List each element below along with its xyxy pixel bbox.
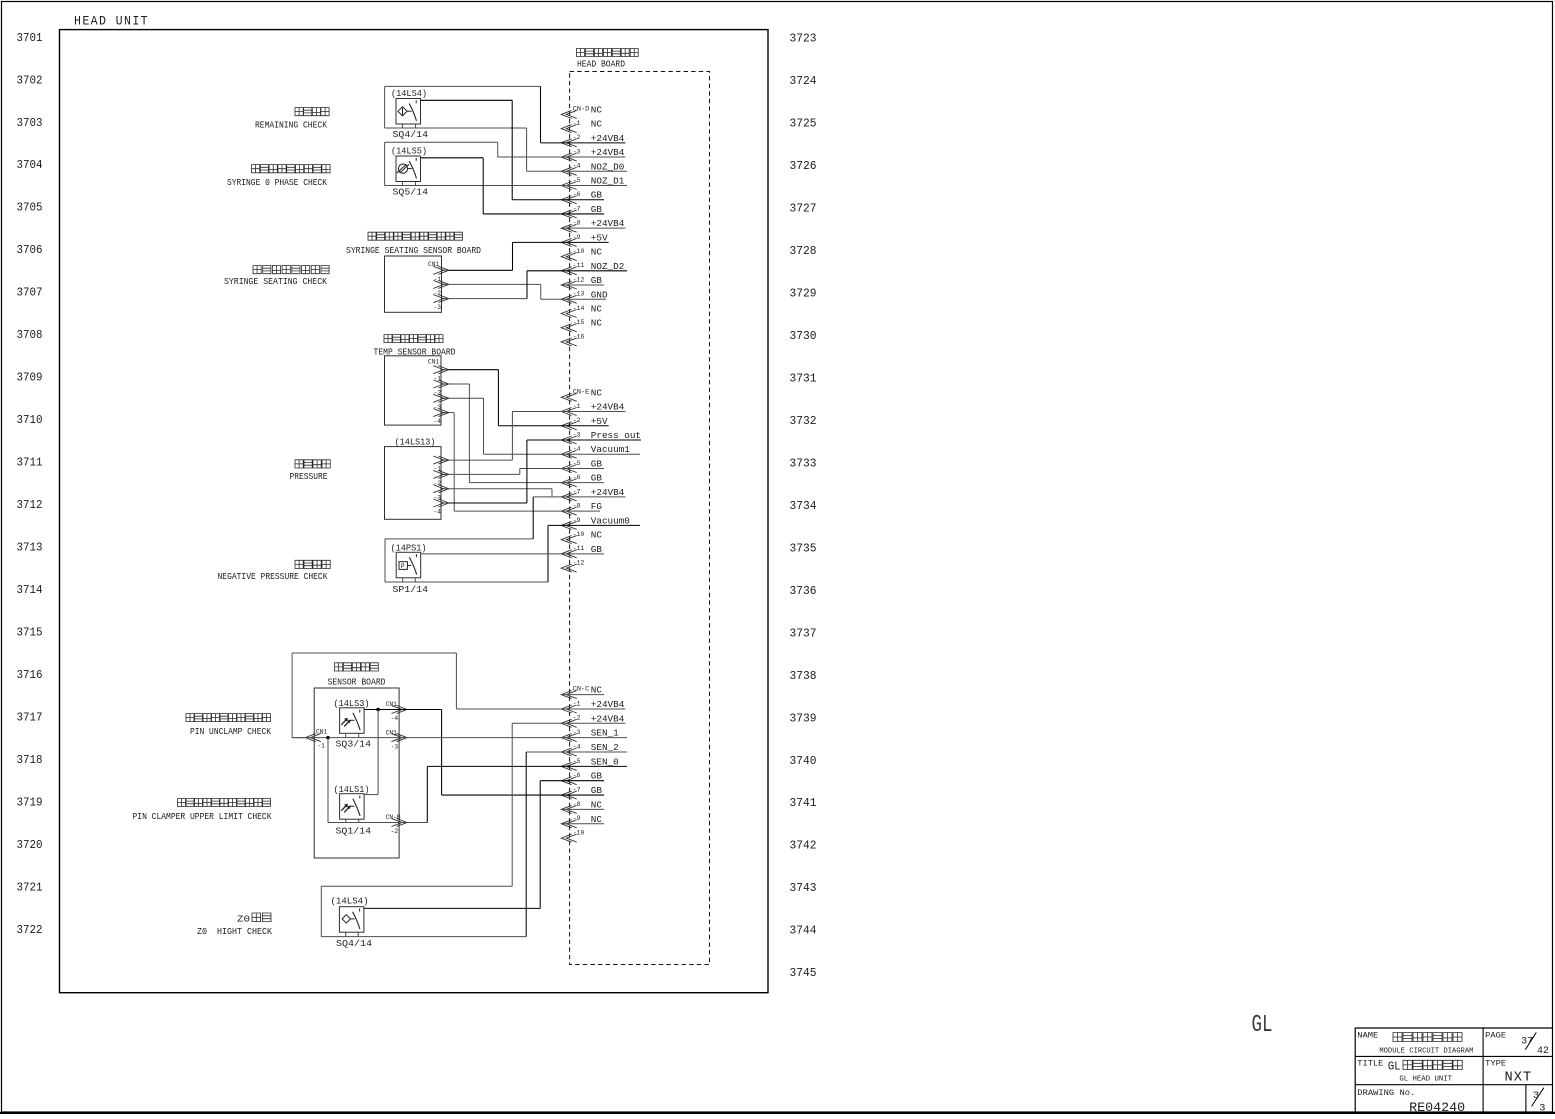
sensor box 14LS3	[340, 708, 365, 734]
14LS3 left stub	[345, 733, 347, 737]
svg-text:-14: -14	[573, 305, 585, 312]
svg-text:Press out: Press out	[591, 430, 641, 441]
Z0 right stub	[357, 932, 359, 936]
head board outline (dashed)	[570, 72, 710, 965]
svg-text:P: P	[401, 563, 405, 570]
svg-text:3726: 3726	[790, 159, 817, 173]
CN-C pin 4 socket symbol	[561, 748, 577, 756]
svg-text:Vacuum0: Vacuum0	[591, 515, 630, 526]
temp board CN1 pin 3	[433, 394, 449, 402]
CN-D-8 +24VB4 underline	[561, 227, 625, 229]
svg-text:Z0 HIGHT CHECK: Z0 HIGHT CHECK	[197, 927, 273, 937]
wire 14LS13-2 to CN-E-5 GB	[449, 473, 520, 475]
CN-D pin 14 socket symbol	[561, 310, 577, 318]
label: TEMP SENSOR BOARD (JP+EN)	[384, 335, 443, 343]
wire CN-C-2 +24VB4 down to Z0 bottom	[512, 722, 625, 724]
14LS1 left stub	[345, 819, 347, 822]
14LS1 right stub	[358, 819, 360, 822]
svg-text:3725: 3725	[790, 117, 817, 131]
wire CN-B-2 to CN-C-5 SEN_0	[426, 766, 428, 822]
14LS13 pin 4	[433, 499, 449, 507]
svg-text:3716: 3716	[17, 668, 43, 682]
svg-text:CN-B: CN-B	[386, 814, 401, 821]
svg-text:-2: -2	[391, 828, 399, 835]
svg-text:-1: -1	[317, 743, 325, 750]
svg-text:PIN CLAMPER UPPER LIMIT CHECK: PIN CLAMPER UPPER LIMIT CHECK	[133, 812, 273, 822]
svg-text:3731: 3731	[790, 371, 817, 385]
CN-E pin 9 socket symbol	[561, 521, 577, 529]
svg-text:+5V: +5V	[591, 416, 608, 427]
svg-text:3738: 3738	[790, 669, 817, 683]
svg-text:3723: 3723	[790, 32, 817, 46]
svg-text:-3: -3	[434, 304, 442, 311]
svg-text:GL: GL	[1388, 1060, 1401, 1074]
svg-text:GB: GB	[591, 544, 603, 555]
svg-text:CN1: CN1	[316, 728, 327, 735]
CN-D pin 4 socket symbol	[561, 167, 577, 175]
svg-text:3713: 3713	[17, 541, 43, 555]
wire CN-C-6 GB to Z0 contact	[540, 780, 604, 782]
svg-text:MODULE CIRCUIT DIAGRAM: MODULE CIRCUIT DIAGRAM	[1379, 1047, 1473, 1055]
svg-text:-10: -10	[573, 830, 585, 837]
svg-text:GL: GL	[1252, 1012, 1273, 1039]
wire 14LS13-3 to CN-E-7 +24VB4	[449, 488, 552, 490]
svg-text:42: 42	[1537, 1045, 1549, 1057]
svg-text:3730: 3730	[790, 329, 817, 343]
svg-text:3740: 3740	[790, 754, 817, 768]
CN-D pin 6 socket symbol	[561, 196, 577, 204]
svg-text:3702: 3702	[17, 73, 43, 87]
svg-text:RE04240: RE04240	[1409, 1101, 1465, 1114]
svg-text:REMAINING CHECK: REMAINING CHECK	[255, 120, 328, 130]
svg-text:NC: NC	[591, 119, 603, 130]
CN-E pin 4 socket symbol	[561, 450, 577, 458]
svg-text:3741: 3741	[790, 796, 817, 810]
svg-text:DRAWING No.: DRAWING No.	[1357, 1088, 1415, 1098]
junction 14LS3/14LS1	[376, 708, 380, 712]
svg-text:GB: GB	[591, 204, 603, 215]
sheet slash	[1532, 1088, 1544, 1107]
svg-text:HEAD BOARD: HEAD BOARD	[577, 60, 625, 70]
sensor box 14PS1	[396, 552, 421, 578]
CN-C pin 7 socket symbol	[561, 791, 577, 799]
svg-text:3734: 3734	[790, 499, 817, 513]
CN-C pin 10 socket symbol	[561, 834, 577, 842]
CN-C pin 3 socket symbol	[561, 734, 577, 742]
svg-text:3715: 3715	[17, 626, 43, 640]
svg-text:NC: NC	[591, 303, 603, 314]
svg-text:-11: -11	[573, 545, 585, 552]
svg-text:SQ5/14: SQ5/14	[393, 188, 429, 198]
CN-E pin 11 socket symbol	[561, 550, 577, 558]
wire seating-2 to CN-D-13 GND	[449, 283, 541, 285]
svg-text:NC: NC	[591, 318, 603, 329]
wire junction down to CN-B row	[327, 738, 329, 823]
sensor box 14LS5	[396, 156, 421, 182]
svg-text:3722: 3722	[17, 923, 43, 937]
svg-text:NC: NC	[591, 530, 603, 541]
svg-text:3745: 3745	[790, 966, 817, 980]
seating board CN1 pin 2	[433, 280, 449, 288]
svg-text:PAGE: PAGE	[1485, 1030, 1506, 1040]
svg-text:(14LS4): (14LS4)	[331, 896, 369, 906]
14PS1 bottom wire to CN-E-9 Vacuum0	[385, 581, 548, 583]
CN-D pin 10 socket symbol	[561, 253, 577, 261]
CN-E pin 10 socket symbol	[561, 536, 577, 544]
svg-text:NC: NC	[591, 685, 603, 696]
14LS5 bottom wire to CN-D-5 NOZ_D1	[385, 185, 627, 187]
svg-text:SYRINGE SEATING SENSOR BOARD: SYRINGE SEATING SENSOR BOARD	[346, 246, 481, 256]
svg-text:+24VB4: +24VB4	[591, 487, 625, 498]
board pin -4	[392, 706, 408, 714]
svg-text:PRESSURE: PRESSURE	[290, 472, 328, 482]
CN-E pin 3 socket symbol	[561, 436, 577, 444]
temp board CN1 pin 2	[433, 380, 449, 388]
wire CN-C-4 SEN_2 down to Z0 bottom wire	[526, 751, 627, 753]
svg-text:3701: 3701	[17, 31, 43, 45]
label: PRESSURE (JP+EN)	[295, 460, 330, 468]
svg-text:+24VB4: +24VB4	[591, 402, 625, 413]
14PS1 enclosure wire to CN-E-7 +24VB4	[385, 538, 533, 540]
CN-D pin 12 socket symbol	[561, 281, 577, 289]
svg-text:GL HEAD UNIT: GL HEAD UNIT	[1399, 1076, 1452, 1084]
svg-text:+24VB4: +24VB4	[591, 699, 625, 710]
CN-E pin 1 socket symbol	[561, 408, 577, 416]
svg-text:3739: 3739	[790, 711, 817, 725]
svg-text:SEN_0: SEN_0	[591, 756, 619, 767]
svg-text:GB: GB	[591, 473, 603, 484]
svg-text:SENSOR BOARD: SENSOR BOARD	[328, 678, 386, 688]
svg-text:3732: 3732	[790, 414, 817, 428]
svg-text:3727: 3727	[790, 202, 817, 216]
svg-text:NAME: NAME	[1357, 1030, 1378, 1040]
svg-text:-4: -4	[391, 715, 399, 722]
CN-E pin 8 socket symbol	[561, 507, 577, 515]
CN-D pin 15 socket symbol	[561, 324, 577, 332]
svg-text:3718: 3718	[17, 753, 43, 767]
14LS4 left stub	[401, 124, 403, 128]
sensor box 14LS1	[340, 794, 365, 820]
svg-text:SEN_1: SEN_1	[591, 728, 619, 739]
svg-text:NC: NC	[591, 387, 603, 398]
svg-text:SQ4/14: SQ4/14	[336, 939, 372, 949]
svg-text:GB: GB	[591, 190, 603, 201]
seating board CN1 pin 1	[433, 266, 449, 274]
label: PIN CLAMPER UPPER LIMIT CHECK (JP+EN)	[178, 799, 271, 807]
svg-text:HEAD UNIT: HEAD UNIT	[74, 15, 149, 29]
svg-text:-12: -12	[573, 276, 585, 283]
svg-text:3721: 3721	[17, 880, 43, 894]
wire junction down to 14LS1 contact	[377, 710, 379, 795]
svg-text:(14LS5): (14LS5)	[391, 147, 427, 157]
svg-text:NC: NC	[591, 247, 603, 258]
wire temp-1 to CN-E-2 +5V	[449, 369, 499, 371]
svg-text:SYRINGE SEATING CHECK: SYRINGE SEATING CHECK	[224, 277, 328, 287]
sensor box 14LS4	[396, 99, 421, 125]
svg-text:3703: 3703	[17, 116, 43, 130]
14PS1 right stub	[414, 578, 416, 582]
board pin -2	[392, 819, 408, 827]
CN-C NC row underlines	[561, 694, 604, 696]
svg-text:-16: -16	[573, 333, 585, 340]
board pin -3	[392, 734, 408, 742]
svg-text:(14LS13): (14LS13)	[395, 438, 436, 448]
svg-text:+24VB4: +24VB4	[591, 133, 625, 144]
main view box	[60, 30, 769, 993]
svg-text:37: 37	[1521, 1036, 1533, 1048]
CN-E pin 2 socket symbol	[561, 422, 577, 430]
svg-text:-10: -10	[573, 531, 585, 538]
14LS5 enclosure wire to CN-D-3 +24VB4	[385, 141, 498, 143]
14LS3 right stub	[358, 733, 360, 737]
CN-D pin 0 socket symbol	[561, 110, 577, 118]
sensor board CN1 pin -1 socket	[305, 734, 321, 742]
svg-text:SQ1/14: SQ1/14	[336, 827, 372, 837]
svg-text:3736: 3736	[790, 584, 817, 598]
svg-text:-4: -4	[434, 509, 442, 516]
CN-D pin 1 socket symbol	[561, 125, 577, 133]
Z0 left stub	[345, 932, 347, 936]
svg-text:3719: 3719	[17, 795, 43, 809]
CN-D pin 9 socket symbol	[561, 238, 577, 246]
14LS13 pin 2	[433, 470, 449, 478]
svg-text:NEGATIVE PRESSURE CHECK: NEGATIVE PRESSURE CHECK	[218, 572, 329, 582]
svg-text:FG: FG	[591, 501, 602, 512]
svg-text:GND: GND	[591, 289, 608, 300]
svg-text:3733: 3733	[790, 456, 817, 470]
svg-text:PIN UNCLAMP CHECK: PIN UNCLAMP CHECK	[190, 727, 272, 737]
svg-text:Vacuum1: Vacuum1	[591, 444, 630, 455]
label: PIN UNCLAMP CHECK (JP+EN)	[186, 714, 271, 722]
svg-text:NOZ_D2: NOZ_D2	[591, 261, 624, 272]
svg-text:TITLE: TITLE	[1357, 1059, 1383, 1069]
svg-text:SYRINGE 0 PHASE CHECK: SYRINGE 0 PHASE CHECK	[227, 178, 328, 188]
CN-E pin 6 socket symbol	[561, 479, 577, 487]
14LS4 contact wire to CN-D-6 GB	[421, 99, 513, 101]
svg-text:3708: 3708	[17, 328, 43, 342]
label: SYRINGE SEATING CHECK (JP+EN)	[253, 266, 329, 274]
svg-text:Z0: Z0	[237, 914, 250, 925]
svg-text:CN1: CN1	[428, 261, 439, 268]
JP: head unit	[1403, 1060, 1462, 1069]
temp board CN1 pin 1	[433, 366, 449, 374]
svg-text:3: 3	[1539, 1102, 1545, 1114]
CN-D pin 16 socket symbol	[561, 338, 577, 346]
svg-text:-11: -11	[573, 262, 585, 269]
svg-text:SEN_2: SEN_2	[591, 742, 619, 753]
svg-text:NOZ_D1: NOZ_D1	[591, 176, 625, 187]
CN-C pin 8 socket symbol	[561, 805, 577, 813]
CN-D pin 2 socket symbol	[561, 139, 577, 147]
svg-text:3710: 3710	[17, 413, 43, 427]
svg-text:-10: -10	[573, 248, 585, 255]
CN-C pin 5 socket symbol	[561, 762, 577, 770]
wire loop: CN1-1 up and over to CN-C-1 +24VB4	[292, 737, 305, 739]
svg-text:3729: 3729	[790, 286, 817, 300]
page slash	[1525, 1032, 1536, 1049]
label: SYRINGE 0 PHASE CHECK (JP+EN)	[252, 165, 331, 173]
wire temp-2 to CN-E-6 GB	[449, 383, 470, 385]
svg-text:SQ4/14: SQ4/14	[393, 130, 429, 140]
wire seating-1 to CN-D-9 +5V	[449, 269, 513, 271]
svg-text:GB: GB	[591, 275, 603, 286]
svg-text:NC: NC	[591, 814, 603, 825]
svg-text:3709: 3709	[17, 371, 43, 385]
CN-E pin 0 socket symbol	[561, 393, 577, 401]
syringe seating sensor board box	[385, 256, 442, 312]
svg-text:(14LS4): (14LS4)	[391, 89, 427, 99]
head board title (JP)	[577, 49, 639, 57]
sensor box 14LS4 (Z0)	[339, 907, 364, 933]
14PS1 contact wire to CN-E-11 GB	[421, 553, 604, 555]
svg-text:3712: 3712	[17, 498, 43, 512]
sensor board outline box	[314, 688, 399, 858]
label: SENSOR BOARD (JP+EN)	[335, 663, 379, 671]
label: REMAINING CHECK (JP+EN)	[295, 108, 329, 116]
svg-text:3728: 3728	[790, 244, 817, 258]
svg-text:3742: 3742	[790, 839, 817, 853]
title block frame	[1355, 1027, 1552, 1029]
pressure sensor box 14LS13	[385, 447, 442, 520]
svg-text:3704: 3704	[17, 158, 43, 172]
svg-text:NC: NC	[591, 104, 603, 115]
svg-text:+5V: +5V	[591, 232, 608, 243]
CN-D pin 5 socket symbol	[561, 182, 577, 190]
svg-text:3744: 3744	[790, 924, 817, 938]
JP: module circuit diagram	[1393, 1033, 1462, 1042]
svg-text:GB: GB	[591, 785, 603, 796]
svg-text:+24VB4: +24VB4	[591, 713, 625, 724]
CN-C pin 1 socket symbol	[561, 705, 577, 713]
svg-text:+24VB4: +24VB4	[591, 218, 625, 229]
CN-E pin 12 socket symbol	[561, 564, 577, 572]
svg-text:3743: 3743	[790, 881, 817, 895]
svg-text:TYPE: TYPE	[1485, 1059, 1506, 1069]
CN-E pin 7 socket symbol	[561, 493, 577, 501]
svg-text:CN1: CN1	[386, 729, 397, 736]
svg-text:NC: NC	[591, 799, 603, 810]
svg-text:SP1/14: SP1/14	[393, 585, 429, 595]
14PS1 left stub	[402, 578, 404, 582]
CN-E pin 5 socket symbol	[561, 465, 577, 473]
14LS13 pin 3	[433, 485, 449, 493]
CN-D pin 8 socket symbol	[561, 224, 577, 232]
svg-text:3706: 3706	[17, 243, 43, 257]
svg-text:3705: 3705	[17, 201, 43, 215]
14LS4 right stub	[415, 124, 417, 128]
label: NEGATIVE PRESSURE CHECK (JP+EN)	[295, 560, 330, 568]
svg-text:3720: 3720	[17, 838, 43, 852]
junction CN1-1/CN-B	[326, 736, 330, 740]
svg-text:GB: GB	[591, 771, 603, 782]
svg-text:-15: -15	[573, 319, 585, 326]
svg-text:+24VB4: +24VB4	[591, 147, 625, 158]
wire 14LS13-4 to CN-E-3 Press out	[449, 502, 527, 504]
seating board CN1 pin 3	[433, 295, 449, 303]
CN-D-12 GB stub underline	[561, 284, 604, 286]
svg-text:-4: -4	[434, 418, 442, 425]
svg-text:NOZ_D0: NOZ_D0	[591, 161, 624, 172]
svg-text:CN1: CN1	[386, 701, 397, 708]
svg-text:NXT: NXT	[1505, 1070, 1533, 1085]
temp board CN1 pin 4	[433, 409, 449, 417]
svg-text:-12: -12	[573, 559, 585, 566]
CN-C pin 6 socket symbol	[561, 777, 577, 785]
wire SEN_1 row: CN1-1 / CN1-3 to CN-C-3	[292, 737, 627, 739]
CN-C pin 2 socket symbol	[561, 719, 577, 727]
svg-text:3735: 3735	[790, 541, 817, 555]
CN-C pin 0 socket symbol	[561, 691, 577, 699]
svg-text:3724: 3724	[790, 74, 817, 88]
CN-D pin 11 socket symbol	[561, 267, 577, 275]
svg-text:3717: 3717	[17, 710, 43, 724]
wire temp-3 to CN-E-4 Vacuum1	[449, 397, 484, 399]
14LS5 left stub	[401, 182, 403, 186]
wire 14LS13-1 to CN-E-1 +24VB4	[449, 459, 513, 461]
wire temp-4 to CN-E-8 FG	[449, 412, 454, 414]
wire seating-3 to CN-D-11 NOZ_D2	[449, 298, 527, 300]
CN-D pin 3 socket symbol	[561, 153, 577, 161]
svg-text:3737: 3737	[790, 626, 817, 640]
svg-text:SQ3/14: SQ3/14	[336, 740, 372, 750]
CN-D pin 13 socket symbol	[561, 295, 577, 303]
wire 14LS3 contact row to CN-C-7 GB	[364, 709, 442, 711]
CN-C pin 9 socket symbol	[561, 820, 577, 828]
temp sensor board box	[385, 356, 442, 425]
14LS5 right stub	[415, 182, 417, 186]
14LS13 pin 1	[433, 456, 449, 464]
svg-text:-13: -13	[573, 291, 585, 298]
14LS5 contact wire to CN-D-7 GB	[421, 157, 484, 159]
CN-D pin 7 socket symbol	[561, 210, 577, 218]
svg-text:3711: 3711	[17, 456, 43, 470]
svg-text:-3: -3	[391, 743, 399, 750]
svg-text:3707: 3707	[17, 286, 43, 300]
svg-text:GB: GB	[591, 458, 603, 469]
14LS4 bottom wire to CN-D-4 NOZ_D0	[385, 127, 527, 129]
svg-text:CN1: CN1	[428, 358, 439, 365]
14LS4 enclosure wire to CN-D-2 +24VB4	[385, 85, 541, 87]
label: SYRINGE SEATING SENSOR BOARD (JP+EN)	[368, 232, 463, 240]
svg-text:3714: 3714	[17, 583, 43, 597]
